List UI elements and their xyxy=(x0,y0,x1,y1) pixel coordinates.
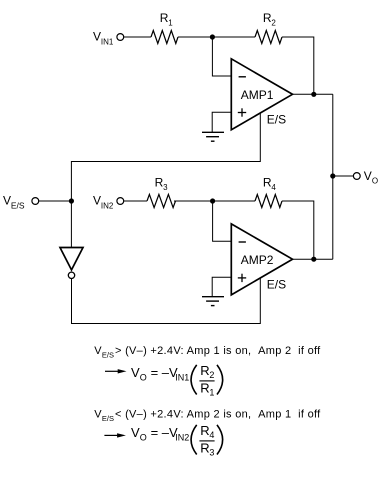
text condition 2 xyxy=(94,409,321,423)
wire junction down to AMP2 inverting input xyxy=(213,201,232,241)
terminal VO xyxy=(353,173,360,180)
parens xyxy=(191,365,197,395)
inverter bubble xyxy=(68,272,74,278)
ground GND2 xyxy=(202,297,224,306)
node AMP1 output junction dot xyxy=(311,92,316,97)
wire VIN1 to R1 xyxy=(124,36,151,38)
wire junction down to inverting input xyxy=(212,37,231,76)
svg-text:< (V–) +2.4V: Amp 2 is on, Am: < (V–) +2.4V: Amp 2 is on, Amp 1 if off xyxy=(115,409,321,421)
svg-text:IN1: IN1 xyxy=(175,373,189,383)
svg-text:IN1: IN1 xyxy=(101,38,114,47)
svg-text:R: R xyxy=(200,423,209,438)
wire AMP2 plus input to ground xyxy=(212,277,231,297)
AMP2 plus sign xyxy=(238,274,246,282)
svg-text:3: 3 xyxy=(209,448,214,458)
arrow formula 2 xyxy=(104,433,126,437)
wire R4 to AMP2 output node xyxy=(282,201,314,259)
svg-text:V: V xyxy=(3,194,11,208)
wire junction to inverter xyxy=(70,201,72,248)
svg-text:E/S: E/S xyxy=(267,112,286,126)
svg-text:O: O xyxy=(372,177,378,186)
AMP1 plus sign xyxy=(238,108,246,116)
svg-text:E/S: E/S xyxy=(267,277,286,291)
wire AMP1 plus input to ground xyxy=(212,112,231,132)
wire VO stub xyxy=(333,175,354,177)
svg-text:V: V xyxy=(364,169,372,183)
svg-text:V: V xyxy=(93,30,101,44)
svg-text:E/S: E/S xyxy=(102,350,114,359)
op-amp AMP1 xyxy=(231,59,292,130)
svg-text:V: V xyxy=(131,365,140,380)
node AMP2 output junction dot xyxy=(311,257,316,262)
svg-text:AMP1: AMP1 xyxy=(241,88,274,102)
svg-text:V: V xyxy=(131,425,140,440)
svg-text:O: O xyxy=(140,433,147,443)
AMP1 minus sign xyxy=(239,76,246,78)
svg-text:R: R xyxy=(200,380,209,395)
wire R2 to AMP1 output node xyxy=(282,37,314,94)
text condition 1 xyxy=(94,345,321,359)
svg-text:> (V–) +2.4V: Amp 1 is on, Am: > (V–) +2.4V: Amp 1 is on, Amp 2 if off xyxy=(115,345,321,357)
resistor R1 xyxy=(151,31,178,44)
wire R1 to R2 xyxy=(178,36,255,38)
resistor R2 xyxy=(255,31,282,44)
svg-text:IN2: IN2 xyxy=(175,433,189,443)
svg-text:= –V: = –V xyxy=(151,365,178,380)
svg-text:E/S: E/S xyxy=(102,414,114,423)
node A junction dot xyxy=(210,34,215,39)
resistor R4 xyxy=(255,195,282,208)
node VE/S label xyxy=(3,194,25,211)
node VO label xyxy=(364,169,378,186)
AMP2 minus sign xyxy=(239,241,246,243)
svg-text:R: R xyxy=(200,440,209,455)
wire AMP1 output xyxy=(293,93,333,95)
node VO junction dot xyxy=(330,173,335,178)
wire VE/S to junction xyxy=(39,200,72,202)
svg-text:1: 1 xyxy=(168,19,173,28)
parens xyxy=(191,425,197,455)
terminal VE/S xyxy=(32,198,39,205)
terminal VIN2 xyxy=(117,198,124,205)
svg-text:2: 2 xyxy=(209,370,214,380)
node VIN1 label xyxy=(93,30,114,47)
node B junction dot xyxy=(210,198,215,203)
wire output down to VO node xyxy=(332,94,334,259)
svg-text:O: O xyxy=(140,373,147,383)
op-amp AMP2 xyxy=(231,224,292,295)
svg-text:3: 3 xyxy=(163,183,168,192)
svg-text:IN2: IN2 xyxy=(101,202,114,211)
resistor R3 xyxy=(147,194,176,207)
arrow formula 1 xyxy=(105,369,127,373)
node VIN2 label xyxy=(93,194,114,211)
wire AMP2 output xyxy=(293,258,333,260)
wire AMP1 E/S pin xyxy=(71,113,260,201)
formula 1 : VO = -VIN1 (R2/R1) xyxy=(131,363,223,398)
inverter U1 xyxy=(60,248,83,270)
svg-text:AMP2: AMP2 xyxy=(241,253,274,267)
wire inverter to AMP2 E/S xyxy=(72,278,261,323)
svg-text:R: R xyxy=(200,363,209,378)
svg-text:2: 2 xyxy=(271,19,276,28)
wire VIN2 to R3 xyxy=(124,200,148,202)
svg-text:4: 4 xyxy=(271,183,276,192)
svg-text:E/S: E/S xyxy=(11,201,25,211)
formula 2 : VO = -VIN2 (R4/R3) xyxy=(131,423,223,458)
ground GND1 xyxy=(202,132,224,141)
svg-text:= –V: = –V xyxy=(151,425,178,440)
svg-text:V: V xyxy=(93,194,101,208)
svg-text:1: 1 xyxy=(209,388,214,398)
svg-text:4: 4 xyxy=(209,430,214,440)
node VE/S junction dot xyxy=(69,198,74,203)
wire R3 to R4 xyxy=(174,200,255,202)
terminal VIN1 xyxy=(117,34,124,41)
